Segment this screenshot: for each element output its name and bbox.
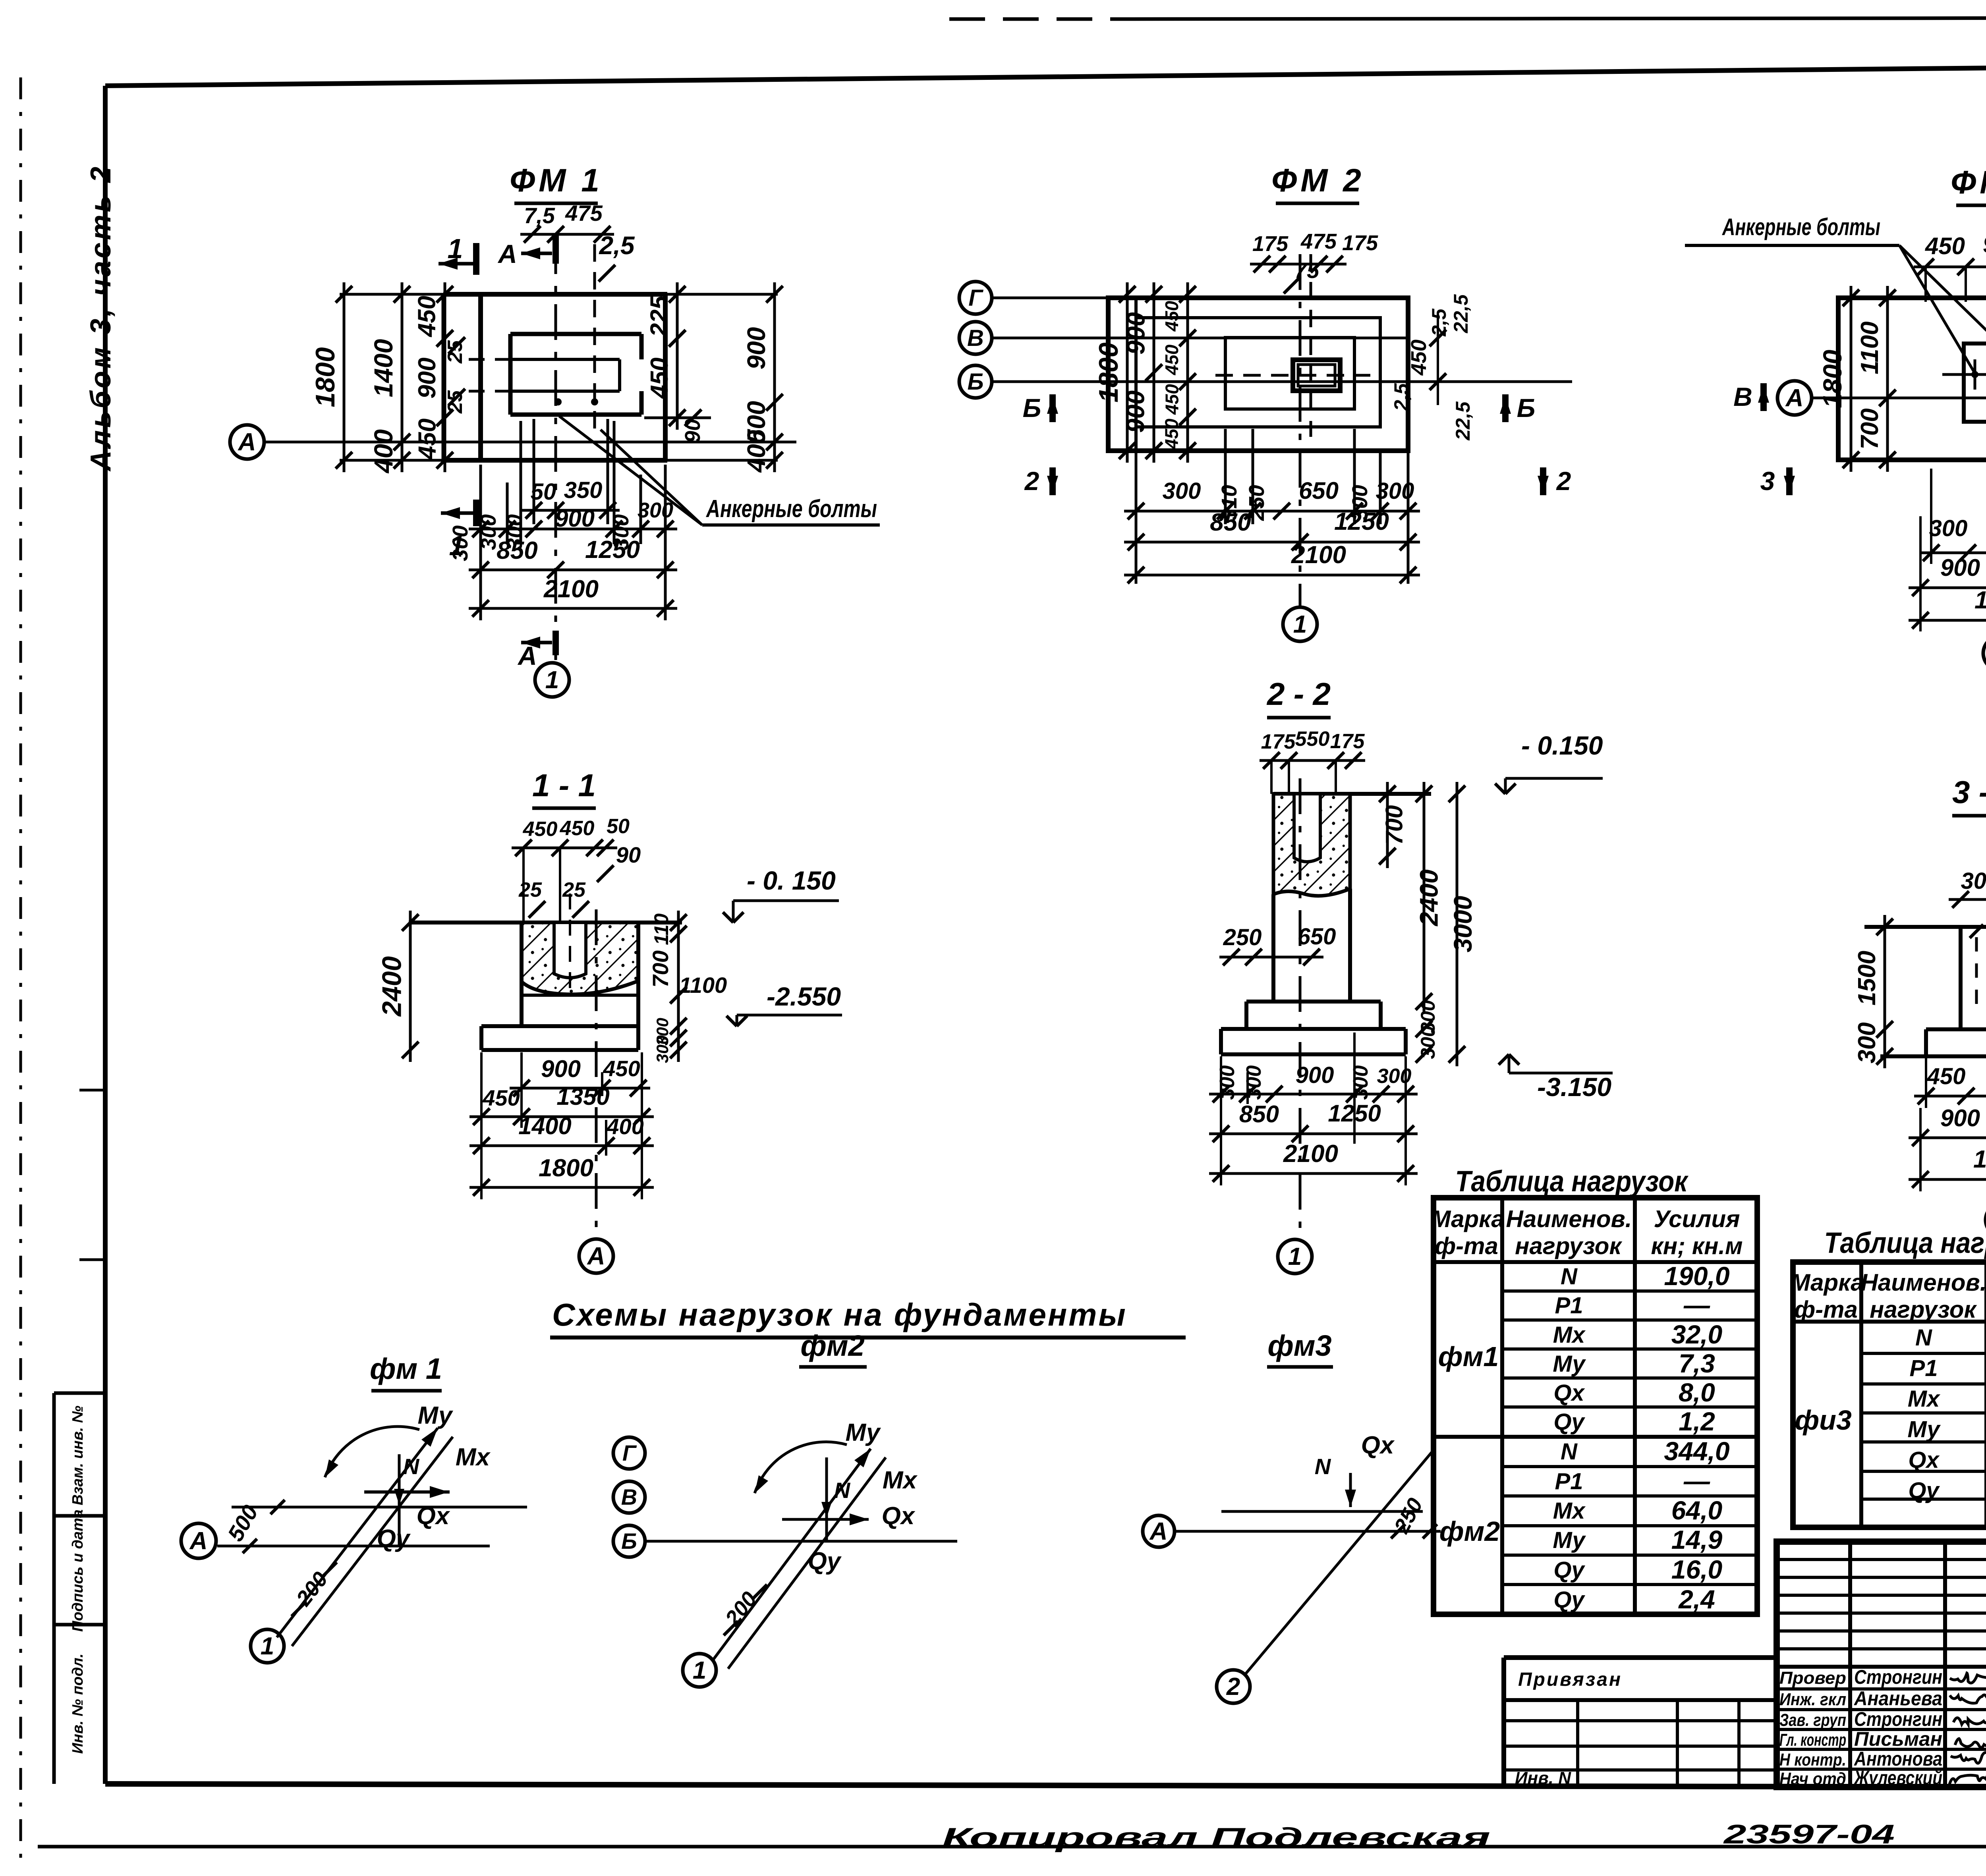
svg-text:350: 350 xyxy=(564,477,603,503)
svg-text:1500: 1500 xyxy=(1853,951,1881,1006)
svg-text:1: 1 xyxy=(693,1657,706,1684)
title block signature labels xyxy=(1779,1666,1942,1789)
svg-text:фм 1: фм 1 xyxy=(370,1352,442,1385)
svg-text:344,0: 344,0 xyxy=(1664,1436,1729,1466)
svg-text:кн; кн.м: кн; кн.м xyxy=(1651,1233,1743,1259)
section 3-3 bottom chain 450 900 450 xyxy=(1914,1063,1986,1104)
plan FM1 footing outline xyxy=(340,294,778,460)
svg-text:А: А xyxy=(189,1527,208,1555)
svg-text:Qх: Qх xyxy=(1553,1380,1585,1406)
section 2-2 elevation -3.150 xyxy=(1499,1054,1613,1102)
svg-text:Qу: Qу xyxy=(1553,1587,1585,1613)
svg-text:В: В xyxy=(967,325,984,351)
svg-text:N: N xyxy=(1315,1454,1331,1479)
svg-text:2,5: 2,5 xyxy=(599,231,635,260)
svg-text:7,5: 7,5 xyxy=(524,203,555,228)
svg-text:64,0: 64,0 xyxy=(1671,1496,1723,1525)
section 3-3 anchor bolts dashed xyxy=(1970,924,1986,1005)
svg-text:Таблица нагрузок: Таблица нагрузок xyxy=(1455,1165,1689,1198)
scheme FM2 moment arc My xyxy=(755,1442,847,1493)
svg-text:ФМ 1: ФМ 1 xyxy=(510,162,603,199)
section 1-1 dim extension verticals xyxy=(481,1052,642,1199)
svg-text:Му: Му xyxy=(418,1402,454,1429)
section 3-3 title xyxy=(1952,774,1986,816)
svg-text:N: N xyxy=(1915,1325,1932,1351)
section 2-2 dim extension verticals xyxy=(1221,1033,1406,1185)
svg-text:25: 25 xyxy=(444,390,467,414)
svg-text:300: 300 xyxy=(1163,478,1201,504)
svg-text:700: 700 xyxy=(648,950,673,987)
svg-text:N: N xyxy=(403,1454,420,1479)
svg-text:450: 450 xyxy=(1407,340,1431,376)
plan FM3 section mark V left xyxy=(1733,382,1769,411)
plan FM1 right dims 900 500 400 xyxy=(742,282,783,473)
svg-text:2: 2 xyxy=(1556,466,1571,496)
section 3-3 top dims 300 300 xyxy=(1949,867,1986,908)
section 2-2 right dims 300 300 xyxy=(1416,1000,1439,1063)
svg-text:300: 300 xyxy=(1242,1065,1265,1100)
svg-text:Наименов.: Наименов. xyxy=(1506,1206,1632,1232)
svg-text:90: 90 xyxy=(681,419,705,443)
svg-text:900: 900 xyxy=(1296,1062,1334,1088)
plan FM1 bottom mini dims 50 350 xyxy=(522,477,620,519)
section 1-1 pedestal and footing outline xyxy=(481,923,638,1050)
scheme FM1 dim 200 on diagonal xyxy=(292,1562,337,1616)
section 2-2 column axis xyxy=(1299,778,1302,1237)
svg-text:Р1: Р1 xyxy=(1555,1469,1583,1494)
anchor bolts label FM3 xyxy=(1685,214,1986,373)
svg-text:1 - 1: 1 - 1 xyxy=(532,768,596,803)
svg-text:N: N xyxy=(1561,1264,1578,1289)
svg-text:450: 450 xyxy=(1162,384,1182,415)
svg-text:3000: 3000 xyxy=(1449,896,1477,952)
svg-text:Му: Му xyxy=(1553,1351,1586,1377)
section 1-1 elevation -2.550 xyxy=(726,982,842,1026)
scheme FM3 axis circle 2 xyxy=(1217,1670,1250,1703)
svg-text:Мх: Мх xyxy=(1553,1322,1586,1348)
svg-text:Qу: Qу xyxy=(1553,1557,1585,1583)
svg-text:Провер: Провер xyxy=(1779,1668,1846,1688)
svg-text:16,0: 16,0 xyxy=(1671,1555,1723,1584)
svg-text:Qх: Qх xyxy=(417,1502,450,1530)
svg-text:450: 450 xyxy=(603,1056,640,1081)
plan FM2 section mark 2 left xyxy=(1024,466,1058,496)
scheme FM1 axis A xyxy=(181,1523,490,1558)
plan FM1 offset labels 25 25 xyxy=(444,337,467,414)
plan FM3 section mark 3 left xyxy=(1760,466,1795,496)
svg-text:400: 400 xyxy=(606,1114,643,1139)
scheme FM3 axis A xyxy=(1143,1515,1441,1547)
svg-text:850: 850 xyxy=(1239,1101,1279,1127)
svg-text:1250: 1250 xyxy=(585,536,640,564)
plan FM1 grid axis A horizontal xyxy=(230,425,796,459)
svg-text:32,0: 32,0 xyxy=(1671,1320,1723,1349)
svg-text:900: 900 xyxy=(541,1056,581,1082)
svg-text:1800: 1800 xyxy=(1974,587,1986,614)
svg-text:Qу: Qу xyxy=(377,1525,411,1552)
section 1-1 title xyxy=(532,768,596,808)
title block outer xyxy=(1777,1542,1986,1787)
svg-text:А: А xyxy=(587,1243,605,1270)
svg-text:Таблица нагрузок: Таблица нагрузок xyxy=(1824,1226,1986,1259)
section 3-3 bottom chain 1800 xyxy=(1909,1146,1986,1188)
svg-text:50: 50 xyxy=(607,815,630,838)
svg-text:Р1: Р1 xyxy=(1910,1355,1938,1381)
plan FM1 bottom chain 2100 xyxy=(469,575,677,617)
plan FM3 grid axis A xyxy=(1777,381,1986,415)
svg-text:Б: Б xyxy=(621,1529,637,1554)
svg-text:Стронгин: Стронгин xyxy=(1854,1708,1942,1730)
svg-text:1: 1 xyxy=(1293,611,1307,638)
scheme FM3 upper line xyxy=(1221,1510,1423,1513)
svg-text:Наименов.: Наименов. xyxy=(1861,1269,1986,1296)
scheme FM1 vertical at origin xyxy=(394,1454,404,1546)
svg-text:Г: Г xyxy=(968,285,983,311)
svg-text:Нач отд: Нач отд xyxy=(1779,1769,1846,1789)
section 2-2 column outline below break xyxy=(1273,889,1350,1002)
svg-text:8,0: 8,0 xyxy=(1679,1378,1715,1407)
plan FM1 right dims 225 450 90 xyxy=(646,282,702,430)
svg-text:Гл. констр: Гл. констр xyxy=(1779,1730,1846,1750)
svg-text:175: 175 xyxy=(1252,232,1289,256)
section 2-2 right dim 700 xyxy=(1379,782,1408,868)
section 2-2 axis circle 1 xyxy=(1278,1239,1312,1274)
plan FM2 top dims 175 475 175 75 xyxy=(1250,230,1378,293)
section 2-2 right dim 2400 xyxy=(1415,782,1443,1013)
scheme FM2 diagonals xyxy=(713,1449,886,1669)
svg-text:2100: 2100 xyxy=(1291,541,1346,569)
svg-text:2400: 2400 xyxy=(1415,869,1443,926)
svg-text:Письман: Письман xyxy=(1854,1728,1942,1750)
svg-text:3: 3 xyxy=(1760,466,1775,496)
svg-text:нагрузок: нагрузок xyxy=(1870,1296,1977,1323)
section 1-1 elevation -0.150 xyxy=(723,866,839,923)
svg-text:175: 175 xyxy=(1261,730,1296,753)
plan FM2 bottom chain 2100 xyxy=(1124,541,1420,583)
scheme FM3 N arrow xyxy=(1315,1454,1356,1507)
svg-text:475: 475 xyxy=(1300,230,1337,253)
svg-text:400: 400 xyxy=(742,430,771,473)
svg-text:450: 450 xyxy=(646,357,673,399)
svg-text:Мх: Мх xyxy=(456,1444,491,1471)
svg-text:ф-та: ф-та xyxy=(1794,1296,1858,1323)
svg-text:Мх: Мх xyxy=(1908,1386,1941,1412)
section 1-1 left dim 2400 xyxy=(377,911,419,1062)
section 2-2 right dim 3000 xyxy=(1449,782,1477,1066)
scheme FM1 upper line with Qx xyxy=(232,1486,527,1530)
svg-text:450: 450 xyxy=(560,817,595,840)
svg-text:2: 2 xyxy=(1226,1673,1240,1700)
svg-text:Б: Б xyxy=(1517,393,1536,423)
svg-text:А: А xyxy=(497,239,517,268)
svg-text:450: 450 xyxy=(482,1085,520,1110)
plan FM1 section mark A bottom xyxy=(517,631,556,670)
scheme FM3 title xyxy=(1267,1329,1333,1367)
plan FM1 bottom chain 850 1250 xyxy=(469,536,677,578)
section 3-3 left dims 1500 300 xyxy=(1853,915,1893,1068)
svg-text:1: 1 xyxy=(449,530,465,561)
plan FM2 left dims 900 900 xyxy=(1121,282,1163,463)
plan FM1 left dims 1400 400 xyxy=(369,282,410,474)
svg-text:-2.550: -2.550 xyxy=(767,982,841,1011)
svg-text:700: 700 xyxy=(1381,805,1408,845)
svg-text:нагрузок: нагрузок xyxy=(1515,1233,1622,1259)
svg-text:300: 300 xyxy=(1961,868,1986,894)
privyazan block xyxy=(1504,1658,1777,1788)
section 1-1 column axis vertical xyxy=(595,909,598,1237)
schemes main title xyxy=(550,1297,1186,1338)
plan FM3 pedestal xyxy=(1964,344,1986,422)
bottom annotation order number xyxy=(1723,1819,1895,1849)
scheme FM1 dim 500 xyxy=(222,1500,285,1553)
vertical text Album 3 part 2 xyxy=(85,164,117,472)
svg-text:25: 25 xyxy=(518,878,542,901)
svg-text:- 0.150: - 0.150 xyxy=(1521,731,1603,760)
svg-text:фм2: фм2 xyxy=(800,1329,864,1362)
svg-text:1800: 1800 xyxy=(1973,1146,1986,1173)
svg-text:450: 450 xyxy=(1925,233,1965,259)
svg-text:850: 850 xyxy=(1210,509,1251,536)
svg-text:1: 1 xyxy=(261,1633,274,1660)
plan FM3 bottom chain 1800 xyxy=(1909,587,1986,629)
scheme FM1 title xyxy=(370,1352,442,1391)
section 2-2 top dims 175 550 175 xyxy=(1260,728,1365,830)
svg-text:1,2: 1,2 xyxy=(1679,1407,1715,1436)
svg-text:- 0. 150: - 0. 150 xyxy=(747,866,836,895)
svg-text:фи3: фи3 xyxy=(1795,1405,1852,1436)
load table 1 title xyxy=(1455,1165,1689,1198)
svg-text:Г: Г xyxy=(622,1440,637,1465)
svg-text:—: — xyxy=(1683,1466,1710,1496)
scheme FM2 vertical at origin xyxy=(821,1457,832,1541)
section 3-3 column outline xyxy=(1961,927,1986,1029)
anchor bolts label FM1 xyxy=(559,416,880,525)
svg-text:Qх: Qх xyxy=(1908,1447,1940,1473)
svg-text:90: 90 xyxy=(616,842,641,867)
svg-text:450: 450 xyxy=(523,818,558,841)
svg-text:Жулевский: Жулевский xyxy=(1853,1767,1942,1789)
svg-text:-3.150: -3.150 xyxy=(1537,1072,1611,1102)
load table 2 grid xyxy=(1793,1262,1986,1527)
svg-text:450: 450 xyxy=(1161,344,1182,375)
svg-text:2,4: 2,4 xyxy=(1678,1585,1715,1614)
scheme FM3 label Qx xyxy=(1361,1432,1395,1459)
plan FM2 section mark B left xyxy=(1023,393,1058,423)
plan FM2 section mark 2 right xyxy=(1538,466,1571,496)
plan FM3 left dim 1800 xyxy=(1818,286,1859,472)
title block signatures xyxy=(1949,1673,1986,1784)
left stamp strip xyxy=(54,1393,105,1784)
section 1-1 axis circle A xyxy=(579,1239,613,1273)
sheet outer trim line left (dash-dot) xyxy=(19,77,22,1866)
scheme FM2 axis circle 1 xyxy=(683,1654,716,1687)
svg-text:Усилия: Усилия xyxy=(1654,1206,1740,1232)
svg-text:1: 1 xyxy=(448,233,463,264)
svg-text:450: 450 xyxy=(1927,1063,1966,1089)
svg-text:900: 900 xyxy=(1940,1105,1980,1131)
plan FM3 axis circle 2 bottom xyxy=(1983,636,1986,670)
svg-text:300: 300 xyxy=(1216,1065,1239,1100)
svg-text:650: 650 xyxy=(1298,924,1336,950)
svg-text:Анкерные болты: Анкерные болты xyxy=(1722,214,1880,240)
svg-text:550: 550 xyxy=(1295,728,1330,751)
svg-text:175: 175 xyxy=(1330,730,1365,753)
plan FM3 bottom chain 300 300 xyxy=(1919,515,1986,561)
plan FM2 anchor bolt axes xyxy=(1215,254,1370,437)
svg-text:1800: 1800 xyxy=(310,347,340,407)
svg-text:Му: Му xyxy=(1907,1417,1941,1442)
section 1-1 top dims 450 450 50 90 xyxy=(512,815,641,923)
section 2-2 bottom chain 850 1250 xyxy=(1209,1100,1418,1142)
scheme FM1 labels xyxy=(377,1402,491,1552)
svg-text:14,9: 14,9 xyxy=(1671,1525,1723,1554)
sheet top edge line xyxy=(949,17,1986,19)
plan FM1 top dims 7,5 475 2,5 xyxy=(520,201,635,282)
svg-text:Ананьева: Ананьева xyxy=(1853,1687,1942,1710)
load table 2 header text xyxy=(1790,1269,1986,1323)
svg-text:Схемы нагрузок на фундам: Схемы нагрузок на фундаменты xyxy=(552,1297,1127,1332)
plan FM2 left dim 1800 xyxy=(1093,282,1136,463)
svg-text:Копировал Подлевская: Копировал Подлевская xyxy=(942,1822,1490,1853)
svg-text:Подпись и дата: Подпись и дата xyxy=(70,1509,86,1632)
section 3-3 dim extension verticals xyxy=(1920,1058,1986,1191)
section 3-3 axis circle 2 xyxy=(1986,1203,1986,1237)
svg-text:—: — xyxy=(1683,1290,1710,1320)
section 1-1 bottom chain 450 1350 xyxy=(469,1083,654,1125)
svg-text:Взам. инв. №: Взам. инв. № xyxy=(70,1406,86,1505)
svg-text:1100: 1100 xyxy=(679,973,727,998)
svg-text:Мх: Мх xyxy=(1553,1498,1586,1524)
scheme FM3 dim 250 xyxy=(1389,1494,1437,1538)
svg-text:250: 250 xyxy=(1223,924,1262,950)
svg-text:400: 400 xyxy=(369,429,398,474)
svg-text:900: 900 xyxy=(413,357,441,398)
section 3-3 bottom chain 900 900 xyxy=(1909,1105,1986,1146)
svg-text:Qх: Qх xyxy=(882,1502,916,1530)
svg-text:ФМ 2: ФМ 2 xyxy=(1271,162,1364,199)
svg-text:7,3: 7,3 xyxy=(1679,1349,1715,1378)
plan FM3 bottom chain 900 900 xyxy=(1909,554,1986,596)
svg-text:25: 25 xyxy=(444,340,467,364)
svg-text:Б: Б xyxy=(967,369,983,395)
scheme FM2 axes G V B xyxy=(613,1437,957,1557)
section 1-1 ground line xyxy=(409,921,682,924)
svg-text:1100: 1100 xyxy=(1856,321,1884,374)
svg-text:1400: 1400 xyxy=(518,1113,571,1139)
section 3-3 footing xyxy=(1880,1029,1986,1056)
section 2-2 bottom chain 300 300 900 300 300 xyxy=(1209,1062,1418,1102)
load table 2 title xyxy=(1824,1226,1986,1259)
section 2-2 dim 250 650 xyxy=(1219,924,1336,965)
svg-text:А: А xyxy=(238,428,256,456)
scheme FM3 diagonal xyxy=(1245,1449,1435,1674)
plan FM2 axis circle 1 bottom xyxy=(1283,607,1317,641)
plan FM1 column channel section xyxy=(469,334,641,415)
svg-text:Инв. № подл.: Инв. № подл. xyxy=(70,1654,86,1754)
svg-text:475: 475 xyxy=(565,201,603,226)
svg-text:175: 175 xyxy=(1342,231,1378,255)
plan FM3 top dims 450 900 450 xyxy=(1914,231,1986,302)
plan FM3 left dims 1100 700 xyxy=(1856,286,1896,472)
svg-text:900: 900 xyxy=(1121,390,1150,433)
plan FM3 dim extension verticals xyxy=(1920,465,1986,631)
svg-text:Мх: Мх xyxy=(883,1467,918,1494)
svg-text:Б: Б xyxy=(1023,393,1041,423)
section 2-2 footing steps xyxy=(1221,1002,1406,1054)
svg-text:А: А xyxy=(1785,384,1804,412)
section 1-1 bottom chain 900 450 xyxy=(510,1056,650,1096)
svg-text:Марка: Марка xyxy=(1790,1269,1864,1296)
plan FM1 column axis line 1 vertical xyxy=(554,238,557,660)
svg-text:900: 900 xyxy=(1983,231,1986,258)
fold marks on left frame xyxy=(79,1090,105,1260)
plan FM1 left dims 450 900 450 xyxy=(413,282,454,472)
svg-text:2 - 2: 2 - 2 xyxy=(1266,676,1331,712)
plan FM3 title xyxy=(1951,164,1986,205)
svg-text:900: 900 xyxy=(555,505,595,532)
svg-text:900: 900 xyxy=(742,327,771,370)
svg-text:850: 850 xyxy=(496,537,537,564)
plan FM2 dim extension verticals xyxy=(1136,429,1408,584)
plan FM2 footing outline xyxy=(1108,298,1408,451)
svg-text:Стронгин: Стронгин xyxy=(1854,1666,1942,1688)
svg-text:А: А xyxy=(517,641,537,670)
plan FM2 pedestal steps xyxy=(1136,318,1380,427)
section 2-2 elevation -0.150 xyxy=(1495,731,1603,794)
section 1-1 bottom chain 1800 xyxy=(469,1154,654,1196)
plan FM1 title xyxy=(510,162,603,203)
load table 1 grid xyxy=(1433,1198,1757,1614)
plan FM3 anchor bolts xyxy=(1942,359,1986,390)
plan FM1 section mark 1 bottom xyxy=(441,500,476,561)
svg-text:В: В xyxy=(1733,382,1752,411)
svg-text:1400: 1400 xyxy=(369,339,398,397)
svg-text:450: 450 xyxy=(413,296,441,338)
svg-text:Му: Му xyxy=(1553,1527,1586,1553)
load table 2 FM3 rows xyxy=(1795,1322,1986,1505)
svg-text:450: 450 xyxy=(1161,301,1182,332)
bottom annotation copied by xyxy=(942,1822,1490,1853)
section 1-1 bottom chain 1400 400 xyxy=(469,1113,654,1154)
svg-text:450: 450 xyxy=(1161,419,1182,450)
svg-text:300: 300 xyxy=(638,498,673,522)
section 2-2 bottom chain 2100 xyxy=(1209,1140,1418,1182)
svg-text:300: 300 xyxy=(1929,515,1968,541)
scheme FM2 upper line with Qx xyxy=(782,1502,916,1530)
svg-text:Qу: Qу xyxy=(1553,1409,1585,1435)
load table 1 FM2 rows xyxy=(1439,1436,1730,1614)
plan FM1 anchor bolts xyxy=(554,398,598,405)
svg-text:Н контр.: Н контр. xyxy=(1779,1750,1846,1770)
svg-text:N: N xyxy=(834,1478,851,1503)
svg-text:фм3: фм3 xyxy=(1267,1329,1331,1362)
scheme FM1 moment arc My xyxy=(325,1426,419,1477)
svg-text:Qх: Qх xyxy=(1361,1432,1395,1459)
svg-text:1: 1 xyxy=(1288,1243,1302,1270)
plan FM1 anchor bolt axis vertical xyxy=(593,244,596,437)
plan FM2 grid axes G V B xyxy=(959,282,1572,398)
svg-text:2,5: 2,5 xyxy=(1390,383,1412,411)
plan FM2 bottom chain 850 1250 xyxy=(1124,508,1420,550)
scheme FM2 dim 200 on diagonal xyxy=(721,1585,767,1635)
svg-text:ф-та: ф-та xyxy=(1435,1233,1498,1259)
svg-text:фм1: фм1 xyxy=(1438,1341,1499,1372)
plan FM1 dim extension verticals xyxy=(481,418,711,620)
svg-text:23597-04: 23597-04 xyxy=(1723,1819,1895,1849)
svg-text:Qу: Qу xyxy=(808,1548,842,1575)
svg-text:300: 300 xyxy=(1349,1065,1372,1100)
svg-text:2400: 2400 xyxy=(377,956,407,1017)
